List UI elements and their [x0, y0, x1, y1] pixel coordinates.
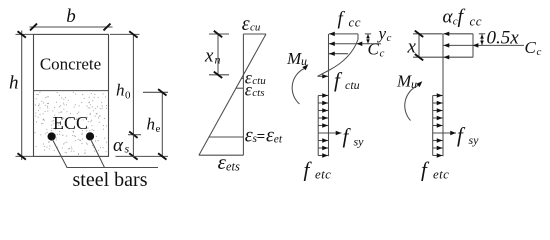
svg-text:c: c: [387, 32, 392, 44]
compression block right edge: [357, 34, 359, 40]
compression arrow 3: [329, 53, 348, 55]
svg-text:n: n: [215, 53, 221, 67]
leader line left steel bar: [53, 140, 68, 168]
svg-text:h: h: [116, 81, 125, 100]
svg-text:ε: ε: [242, 13, 250, 35]
label Cc: [368, 40, 385, 60]
label f_etc (stress diagram): [304, 158, 332, 182]
label yc: [377, 24, 392, 44]
leader underline: [67, 167, 159, 169]
svg-text:c: c: [380, 48, 385, 60]
svg-text:sy: sy: [354, 135, 365, 149]
svg-text:sy: sy: [469, 133, 480, 147]
svg-text:0.5x: 0.5x: [487, 28, 520, 49]
dimension yc: [365, 34, 371, 44]
dimension b: [30, 6, 113, 30]
label epsilon_ets: [218, 150, 240, 174]
svg-text:ECC: ECC: [53, 113, 88, 133]
svg-text:etc: etc: [315, 167, 331, 182]
label Cc (simplified): [525, 38, 542, 58]
label f_etc (simplified): [421, 158, 449, 182]
f_sy arrow (stress diagram): [318, 132, 341, 134]
neutral axis spike line: [318, 71, 329, 77]
simplified diagram axis: [442, 34, 444, 156]
ECC stipple texture: [35, 92, 107, 154]
svg-text:=: =: [257, 129, 266, 145]
strain diagram top edge: [243, 33, 266, 35]
svg-text:c: c: [537, 46, 542, 58]
svg-text:ctu: ctu: [345, 78, 360, 92]
svg-text:steel bars: steel bars: [73, 169, 148, 191]
svg-text:x: x: [204, 46, 214, 67]
svg-text:α: α: [113, 135, 124, 156]
strain profile line: [199, 34, 266, 155]
svg-text:cc: cc: [349, 15, 362, 30]
dimension h0: [110, 31, 141, 138]
moment Mu label (stress diagram): [286, 49, 307, 68]
beam cross-section rectangle: [34, 34, 109, 156]
label 0.5x: [487, 28, 520, 49]
mark epsilon_cts level: [236, 87, 243, 89]
label alpha_c f_cc: [443, 6, 483, 29]
rectangular block top arrow: [444, 33, 474, 35]
svg-text:et: et: [274, 134, 283, 146]
dimension 0.5x: [479, 34, 485, 46]
svg-text:ctu: ctu: [252, 75, 266, 87]
svg-text:b: b: [66, 6, 76, 27]
label epsilon_s = epsilon_et: [245, 124, 283, 146]
label f_sy (stress diagram): [343, 124, 365, 149]
mark epsilon_ctu level: [241, 77, 243, 79]
label epsilon_cu: [242, 13, 261, 35]
strain diagram axis: [242, 34, 244, 155]
f_sy arrow (simplified): [433, 132, 456, 134]
Cc arrow with middle block arrow: [444, 43, 525, 48]
dimension h: [9, 31, 33, 161]
tension block left edge (stress diagram): [317, 96, 319, 156]
svg-text:M: M: [286, 49, 302, 68]
svg-text:e: e: [156, 123, 161, 135]
compression top edge arrow: [329, 33, 358, 35]
label epsilon_ctu: [245, 68, 267, 88]
compression arrow 2 with Cc shaft: [329, 42, 381, 47]
stress diagram axis: [328, 34, 330, 156]
label epsilon_cts: [245, 80, 265, 100]
dimension x: [407, 31, 443, 61]
moment Mu label (simplified): [396, 72, 417, 92]
svg-text:h: h: [9, 73, 19, 94]
moment Mu curved arrow (simplified): [405, 81, 423, 120]
svg-text:cts: cts: [252, 87, 264, 99]
rectangular block right edge: [472, 34, 474, 57]
tension arrows (stress diagram): [318, 96, 328, 156]
label f_cc: [338, 9, 362, 30]
svg-text:C: C: [368, 40, 380, 59]
svg-text:0: 0: [125, 90, 131, 102]
svg-text:h: h: [147, 115, 156, 134]
svg-text:Concrete: Concrete: [40, 54, 101, 73]
label steel bars: [73, 169, 148, 191]
dimension alpha_s: [113, 135, 138, 160]
compression stress curve: [329, 40, 359, 71]
svg-text:M: M: [396, 72, 412, 91]
label f_ctu: [334, 68, 360, 92]
label ECC: [53, 113, 88, 133]
moment Mu curved arrow (stress diagram): [292, 64, 308, 104]
label f_sy (simplified): [457, 123, 479, 147]
svg-text:s: s: [125, 142, 130, 156]
dimension he: [116, 89, 169, 160]
rectangular block bottom arrow: [444, 56, 474, 58]
svg-text:ε: ε: [266, 124, 274, 146]
tension arrows (simplified): [433, 96, 443, 156]
svg-text:cu: cu: [250, 21, 261, 33]
leader line right steel bar: [91, 140, 105, 168]
mark steel strain level: [209, 136, 243, 138]
strain diagram bottom edge: [199, 154, 244, 156]
svg-text:cc: cc: [470, 14, 483, 29]
svg-text:x: x: [407, 37, 417, 58]
f_ctu spike arrow: [318, 75, 329, 77]
dimension xn: [204, 31, 229, 78]
concrete/ECC interface line: [34, 90, 109, 92]
svg-text:etc: etc: [433, 167, 449, 182]
svg-text:ets: ets: [226, 160, 240, 174]
steel bar right: [86, 132, 94, 140]
label Concrete: [40, 54, 101, 73]
svg-text:C: C: [525, 38, 537, 57]
tension block left edge (simplified): [432, 96, 434, 156]
steel bar left: [48, 132, 56, 140]
